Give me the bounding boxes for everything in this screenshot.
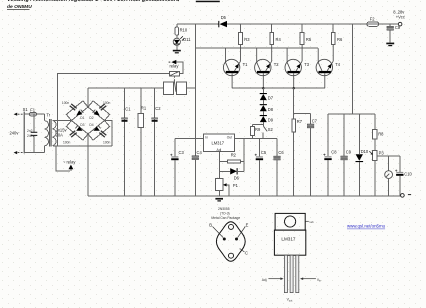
svg-text:relay: relay: [170, 64, 180, 69]
capacitor C3: [170, 139, 184, 196]
svg-text:R7: R7: [297, 119, 303, 124]
diode D8: [260, 100, 274, 112]
svg-text:100n: 100n: [103, 101, 111, 105]
transformer secondary winding: [53, 120, 56, 145]
junction dot (T3 base / R7): [293, 87, 295, 89]
title: de ON5MU: [7, 4, 32, 10]
potentiometer P1: [216, 179, 239, 197]
svg-text:R5: R5: [306, 37, 312, 42]
resistor R6: [331, 24, 343, 44]
meter/lamp: [385, 156, 393, 196]
wire: stack to R9/S2: [253, 122, 264, 124]
diode D5: [219, 15, 227, 27]
switch S1: [23, 107, 29, 153]
svg-text:Adj: Adj: [217, 148, 222, 152]
svg-text:C10: C10: [404, 172, 412, 177]
wire: bridge + up: [87, 88, 89, 107]
resistor R5: [300, 24, 312, 44]
svg-text:2n2: 2n2: [27, 129, 33, 133]
svg-text:In: In: [205, 136, 208, 140]
transistor package 2N3055 TO-3 drawing: [209, 207, 248, 261]
regulator package LM317 TO-220 drawing: [262, 213, 322, 302]
diode D1: [76, 110, 83, 116]
diode D3: [75, 125, 82, 131]
capacitor C9 (output 100n): [387, 24, 401, 42]
svg-text:~ relay: ~ relay: [63, 160, 76, 165]
svg-text:R3: R3: [244, 37, 250, 42]
op-amp/regulator U1 LM317 box: [204, 134, 235, 152]
capacitor C6: [274, 139, 285, 196]
svg-text:C4: C4: [197, 150, 203, 155]
svg-text:D1: D1: [80, 116, 84, 120]
svg-text:100n: 100n: [103, 141, 111, 145]
wire: R2/D6 to Out: [243, 139, 245, 172]
diode D6: [220, 168, 244, 180]
diode D4: [94, 125, 101, 131]
fuse F2: [367, 16, 379, 26]
svg-text:T3: T3: [304, 62, 310, 67]
svg-text:2N3055: 2N3055: [218, 207, 230, 211]
svg-text:T2: T2: [274, 62, 280, 67]
svg-text:C5: C5: [261, 150, 267, 155]
resistor R8: [372, 114, 384, 151]
snubber loop + cap 100n (top-left): [62, 101, 88, 121]
snubber loop + cap 100n (top-right): [88, 101, 111, 121]
ground rail: [88, 195, 400, 197]
collector rail: [195, 47, 318, 49]
capacitor C7: [307, 113, 317, 196]
wire: DC+ rail to relay contact: [88, 87, 164, 89]
wire: bridge - down to ground rail: [87, 134, 89, 196]
capacitor C8: [323, 114, 337, 196]
wire: secondary bottom tap: [53, 145, 56, 147]
svg-text:(TO-3): (TO-3): [220, 211, 230, 215]
relay off-page arrow (~): [169, 60, 184, 74]
svg-text:C8: C8: [331, 149, 337, 154]
capacitor C10: [395, 156, 412, 196]
svg-text:D8: D8: [268, 107, 274, 112]
transistor T3: [285, 45, 310, 89]
snubber loop + cap 100n (bottom-right): [88, 121, 111, 145]
relay coil: [169, 64, 179, 76]
svg-text:C3: C3: [179, 150, 185, 155]
main riser rail (unregulated +): [194, 24, 196, 139]
capacitor C9b: [341, 114, 352, 196]
snubber loop + cap 100n (bottom-left): [63, 121, 88, 145]
svg-text:C7: C7: [312, 119, 318, 124]
wire: primary bottom: [24, 152, 44, 154]
wire: contact to +rail riser: [187, 87, 196, 89]
diode D7: [260, 88, 274, 101]
svg-text:R1: R1: [141, 106, 147, 111]
svg-text:LM317: LM317: [281, 236, 295, 241]
resistor R1: [138, 88, 147, 196]
capacitor across primary (2n2): [27, 114, 37, 153]
relay contact left box: [164, 82, 174, 95]
wire: Out: [235, 138, 277, 140]
capacitor C5: [255, 139, 267, 196]
output bus: [328, 113, 375, 115]
transformer Tr primary winding: [44, 114, 48, 153]
wire: In branch to C3: [175, 138, 195, 140]
svg-text:P3: P3: [379, 151, 385, 156]
-Vcc output terminal: [401, 194, 412, 198]
wire: sense to meter/C10: [377, 155, 400, 157]
mains terminal L: [14, 113, 25, 116]
svg-text:Voeding / Alimentation regelba: Voeding / Alimentation regelbaar 2 - 30v…: [7, 0, 180, 3]
capacitor C2: [152, 88, 162, 196]
wire: Adj: [219, 152, 221, 179]
resistor R2: [220, 153, 244, 163]
mains terminal N: [14, 151, 25, 154]
svg-text:+Vcc: +Vcc: [396, 14, 405, 19]
svg-text:C6: C6: [278, 150, 284, 155]
svg-text:tab: tab: [310, 220, 315, 224]
svg-text:C9: C9: [346, 149, 352, 154]
svg-text:Metal Can Package: Metal Can Package: [211, 216, 240, 220]
svg-text:F2: F2: [370, 16, 376, 21]
svg-text:240v: 240v: [27, 134, 35, 138]
diode D2: [93, 110, 100, 116]
svg-text:C2: C2: [155, 106, 161, 111]
wire: In: [195, 138, 203, 140]
svg-text:Tr: Tr: [46, 113, 50, 118]
svg-text:D10: D10: [361, 149, 369, 154]
wire: bridge AC2 riser: [105, 120, 113, 146]
svg-text:C: C: [245, 251, 248, 256]
resistor R4: [270, 24, 282, 44]
svg-text:B: B: [209, 223, 212, 228]
transistor T4: [316, 45, 341, 89]
ground (D11): [173, 45, 181, 53]
fuse F1: [30, 108, 37, 116]
off-page arrow ~ relay (bottom): [63, 160, 76, 171]
svg-text:T1: T1: [243, 62, 249, 67]
svg-text:Out: Out: [227, 136, 232, 140]
base rail: [232, 87, 325, 89]
svg-text:Adj: Adj: [262, 278, 267, 282]
svg-text:LM317: LM317: [212, 140, 225, 145]
transistor T1: [223, 45, 248, 89]
bridge rectifier diamond: [72, 107, 105, 134]
svg-text:D6: D6: [234, 175, 240, 180]
svg-text:D11: D11: [183, 37, 191, 42]
svg-text:D2: D2: [89, 116, 93, 120]
resistor R7: [292, 88, 303, 196]
svg-text:E: E: [246, 223, 249, 228]
svg-text:D7: D7: [268, 96, 274, 101]
svg-text:D5: D5: [221, 15, 227, 20]
relay contact link (dashed): [174, 76, 176, 81]
svg-text:R10: R10: [180, 27, 188, 32]
resistor R9: [251, 124, 261, 138]
title: clipped top text line: [7, 0, 220, 3]
top rail wire: [177, 23, 219, 25]
ground (main): [215, 198, 223, 202]
svg-text:D9: D9: [268, 118, 274, 123]
labels D1 D2 D3 D4: [80, 116, 94, 127]
svg-text:S2: S2: [268, 127, 274, 132]
svg-text:F1: F1: [30, 108, 36, 113]
potentiometer P3: [369, 151, 384, 196]
svg-text:D3: D3: [80, 123, 84, 127]
svg-text:R2: R2: [231, 153, 237, 158]
svg-text:R4: R4: [276, 37, 282, 42]
wire: fuse to primary: [24, 113, 29, 115]
right riser from top rail: [352, 24, 354, 114]
transistor T2: [255, 45, 280, 89]
resistor R3: [239, 24, 251, 44]
wire: bottom AC run to bridge AC2 riser: [56, 145, 112, 147]
LED D11: [173, 35, 191, 45]
transformer core: [50, 119, 52, 147]
svg-text:D4: D4: [89, 123, 93, 127]
svg-text:R9: R9: [255, 127, 261, 132]
svg-text:R6: R6: [337, 37, 343, 42]
svg-text:P1: P1: [233, 183, 239, 188]
svg-text:100n: 100n: [63, 141, 71, 145]
capacitor C4: [192, 139, 202, 196]
svg-text:S1: S1: [23, 107, 29, 112]
wire: R7/C7 tee: [294, 112, 311, 114]
junction dot (T2 base / diode stack): [262, 87, 264, 89]
wire: secondary top tap to bridge AC1: [53, 119, 72, 121]
svg-text:20A: 20A: [56, 133, 64, 138]
svg-text:T4: T4: [335, 62, 341, 67]
switch S2: [263, 124, 274, 138]
svg-text:C1: C1: [125, 107, 131, 112]
diode D9: [260, 111, 274, 123]
node: relay AC tap: [56, 146, 70, 171]
resistor R10: [175, 24, 188, 35]
relay coil wire (left): [57, 74, 169, 147]
svg-text:240v: 240v: [10, 131, 20, 136]
title underline fragment: [196, 1, 220, 3]
svg-text:R8: R8: [378, 132, 384, 137]
relay contact right box: [177, 82, 187, 95]
ground (C9): [386, 43, 394, 47]
svg-text:www.qsl.net/on5mu: www.qsl.net/on5mu: [347, 224, 386, 229]
+Vcc output terminal: [393, 10, 405, 26]
svg-text:100n: 100n: [62, 101, 70, 105]
capacitor C1: [122, 88, 132, 196]
diode D10: [356, 114, 369, 196]
relay contact blade: [174, 80, 176, 92]
